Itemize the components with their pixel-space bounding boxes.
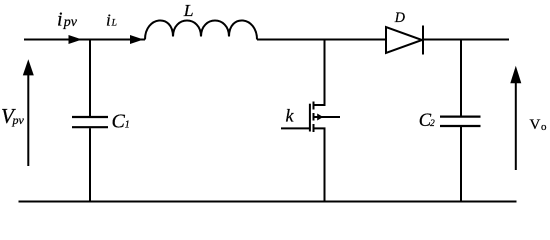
svg-text:L: L: [183, 1, 194, 20]
transistor k (MOSFET switch): [281, 40, 340, 202]
capacitor C1 top plate: [72, 116, 108, 118]
drain stub: [314, 40, 325, 105]
capacitor C2 bottom plate: [440, 125, 481, 127]
svg-text:L: L: [111, 19, 117, 29]
label i_L: [106, 11, 117, 30]
body lead with arrow: [314, 116, 341, 118]
svg-text:pv: pv: [63, 15, 78, 30]
svg-text:V: V: [530, 117, 541, 133]
arrowhead i_pv current direction: [69, 35, 83, 44]
label C1: [112, 111, 130, 133]
svg-text:C: C: [112, 111, 126, 133]
gate plate: [309, 104, 311, 132]
svg-text:1: 1: [125, 120, 130, 131]
wire: inductor to diode: [257, 39, 386, 41]
svg-text:i: i: [106, 11, 111, 30]
wire: gate lead: [281, 127, 310, 129]
arrow V_o (output voltage): [515, 82, 517, 170]
svg-text:2: 2: [430, 119, 435, 129]
channel segment bottom: [313, 124, 315, 132]
arrow V_pv (input voltage): [27, 74, 29, 166]
diode D cathode bar: [422, 26, 424, 55]
wire: C2 branch upper: [460, 40, 462, 116]
label i_pv: [57, 9, 78, 31]
wire: top rail input segment: [24, 39, 145, 41]
svg-text:i: i: [57, 9, 63, 31]
svg-text:k: k: [286, 106, 295, 126]
wire: bottom rail: [19, 201, 517, 203]
wire: C2 branch lower: [460, 127, 462, 202]
svg-text:D: D: [394, 10, 405, 26]
source stub: [314, 128, 325, 201]
label C2: [419, 111, 435, 131]
label V_pv: [1, 104, 25, 128]
channel segment middle: [313, 113, 315, 121]
label V_o: [530, 117, 548, 133]
wire: C1 branch lower: [89, 128, 91, 201]
diode D anode triangle: [386, 27, 422, 53]
capacitor C1 bottom plate: [72, 126, 108, 128]
svg-text:o: o: [541, 121, 547, 133]
arrowhead i_L current direction: [130, 35, 144, 44]
inductor L: [145, 20, 257, 39]
wire: C1 branch upper: [89, 40, 91, 117]
svg-text:pv: pv: [12, 113, 25, 127]
wire: diode to output corner: [423, 39, 509, 41]
channel segment top: [313, 102, 315, 110]
capacitor C2 top plate: [440, 115, 481, 117]
